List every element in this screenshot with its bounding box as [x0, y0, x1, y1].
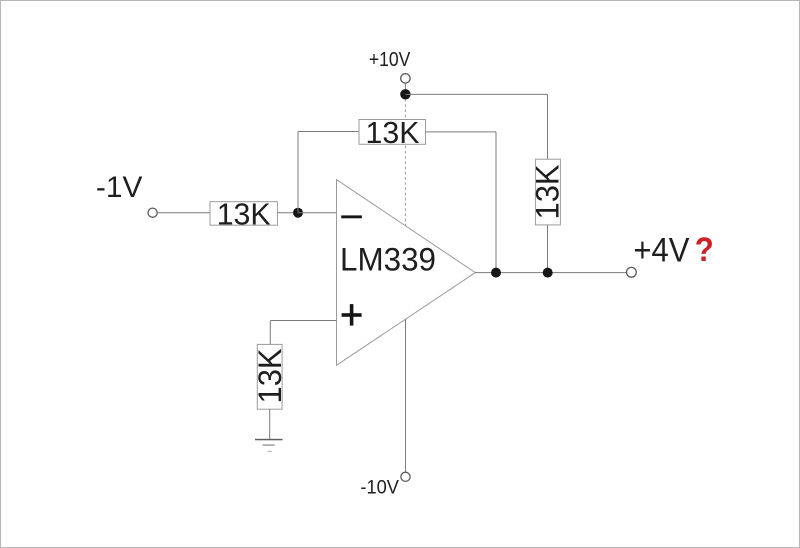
svg-text:-10V: -10V: [360, 477, 399, 499]
svg-text:-1V: -1V: [96, 171, 142, 204]
label -10V: [360, 477, 399, 499]
resistor R2 13K (feedback, horizontal): [359, 115, 426, 150]
label +10V: [369, 48, 411, 71]
svg-text:+4V: +4V: [633, 231, 689, 269]
op-amp U1 LM339: [337, 180, 476, 366]
svg-text:13K: 13K: [252, 349, 288, 404]
node IN terminal (-1V): [148, 208, 157, 217]
wire: up to R2 left: [298, 131, 359, 133]
dotted line: op-amp power to +10V node: [404, 99, 406, 226]
node B junction (+10V rail): [400, 89, 410, 99]
svg-text:+10V: +10V: [369, 48, 411, 71]
pin minus (inverting input): [341, 215, 362, 218]
svg-text:13K: 13K: [530, 165, 566, 220]
resistor R1 13K (input, horizontal): [210, 196, 277, 231]
wire: op-amp VEE pin down to -10V: [405, 319, 407, 472]
svg-text:LM339: LM339: [340, 241, 436, 277]
wire: +10V rail to R3: [405, 93, 547, 95]
wire: plus input left: [270, 320, 336, 322]
resistor R3 13K (pull-up, vertical): [530, 159, 566, 225]
label -1V: [96, 171, 142, 204]
wire: +10V terminal to junction: [404, 83, 406, 94]
ground: [255, 439, 283, 452]
label question mark: [695, 231, 714, 269]
node VEE terminal (-10V): [401, 472, 410, 481]
wire: R2 right to output drop: [426, 131, 497, 133]
wire: node A to op-amp minus input: [298, 212, 337, 214]
svg-text:?: ?: [695, 231, 714, 269]
svg-text:13K: 13K: [366, 115, 420, 150]
wire: R4 bottom to ground: [269, 409, 271, 439]
wire: op-amp output to output terminal: [475, 272, 626, 274]
wire: R1 to inverting node: [277, 212, 298, 214]
node A junction (inverting input): [293, 208, 303, 218]
node OUT terminal (+4V): [627, 267, 637, 277]
pin plus (non-inverting input): [342, 304, 362, 326]
wire: R3 bottom to output node: [547, 225, 549, 273]
wire: input terminal to R1: [157, 212, 210, 214]
wire: down to R4: [269, 321, 271, 345]
svg-text:13K: 13K: [217, 196, 271, 231]
resistor R4 13K (to ground, vertical): [252, 344, 288, 409]
node C junction (output / feedback): [491, 268, 501, 278]
label +4V: [633, 231, 689, 269]
wire: node A up to feedback resistor: [297, 132, 299, 213]
node D junction (output / pull-up): [543, 268, 553, 278]
wire: down to R3 top: [547, 94, 549, 159]
wire: down to output node: [495, 132, 497, 273]
node VCC terminal (+10V): [401, 74, 410, 83]
